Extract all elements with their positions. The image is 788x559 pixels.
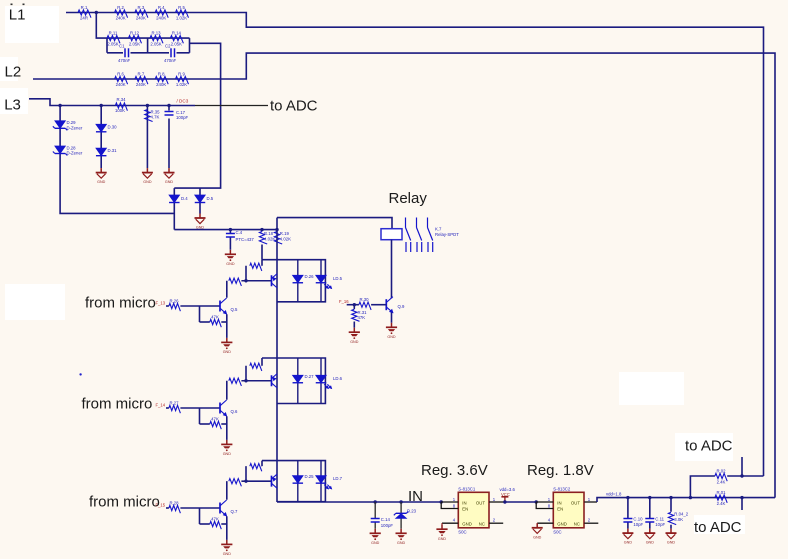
svg-text:GND: GND xyxy=(438,537,447,541)
svg-text:47K: 47K xyxy=(211,517,219,522)
svg-text:from micro: from micro xyxy=(85,295,156,312)
svg-text:EN: EN xyxy=(462,506,468,511)
svg-text:R.7: R.7 xyxy=(138,72,145,77)
svg-text:47K: 47K xyxy=(211,315,219,320)
svg-text:L2: L2 xyxy=(5,64,22,81)
svg-text:100pF: 100pF xyxy=(176,115,189,120)
svg-text:D-Zener: D-Zener xyxy=(67,151,83,156)
svg-text:D.31: D.31 xyxy=(108,148,118,153)
svg-text:from micro: from micro xyxy=(89,494,160,511)
svg-text:D-Zener: D-Zener xyxy=(67,125,83,130)
svg-text:GND: GND xyxy=(97,180,106,184)
svg-text:Reg. 3.6V: Reg. 3.6V xyxy=(421,462,488,479)
svg-text:GND: GND xyxy=(350,340,359,344)
svg-text:OUT: OUT xyxy=(476,500,485,505)
svg-text:to ADC: to ADC xyxy=(270,98,318,115)
svg-text:R.34: R.34 xyxy=(116,97,126,102)
svg-text:R.26: R.26 xyxy=(169,299,179,304)
svg-text:240K: 240K xyxy=(116,82,126,87)
svg-text:F_14: F_14 xyxy=(156,403,166,408)
svg-text:OUT: OUT xyxy=(571,500,580,505)
svg-text:S-813C1: S-813C1 xyxy=(458,487,476,492)
svg-text:R.27: R.27 xyxy=(169,401,179,406)
svg-text:C.4: C.4 xyxy=(236,230,243,235)
svg-text:NC: NC xyxy=(574,521,580,526)
svg-text:F_13: F_13 xyxy=(156,301,166,306)
svg-text:NC: NC xyxy=(479,521,485,526)
svg-text:2.05K: 2.05K xyxy=(150,42,161,47)
svg-text:D.4: D.4 xyxy=(181,196,188,201)
svg-text:2.05K: 2.05K xyxy=(107,42,118,47)
svg-text:D.5: D.5 xyxy=(207,196,214,201)
svg-text:GND: GND xyxy=(533,535,542,539)
svg-text:R.28: R.28 xyxy=(169,501,179,506)
svg-text:IN: IN xyxy=(408,488,423,505)
svg-text:GND: GND xyxy=(371,541,380,545)
svg-text:R.19: R.19 xyxy=(280,231,290,236)
svg-text:R.30: R.30 xyxy=(359,297,369,302)
svg-text:R.1: R.1 xyxy=(81,5,88,10)
svg-text:GND: GND xyxy=(223,452,232,456)
svg-text:2.05K: 2.05K xyxy=(171,42,182,47)
svg-text:4.02K: 4.02K xyxy=(280,236,291,241)
svg-text:C1: C1 xyxy=(119,44,125,49)
svg-text:D.27: D.27 xyxy=(305,374,315,379)
svg-text:S-813C2: S-813C2 xyxy=(553,487,571,492)
svg-text:2.4K: 2.4K xyxy=(717,501,726,506)
svg-text:IN: IN xyxy=(557,500,561,505)
svg-text:470nF: 470nF xyxy=(164,58,177,63)
svg-text:R.3: R.3 xyxy=(138,5,145,10)
svg-text:R.11: R.11 xyxy=(109,31,118,36)
svg-text:R.8: R.8 xyxy=(158,72,165,77)
svg-text:LD.5: LD.5 xyxy=(333,276,343,281)
svg-text:Q.5: Q.5 xyxy=(231,307,239,312)
svg-text:F_16: F_16 xyxy=(339,299,349,304)
svg-text:GND: GND xyxy=(165,180,174,184)
svg-text:R.9: R.9 xyxy=(178,72,185,77)
svg-text:to ADC: to ADC xyxy=(685,438,733,455)
svg-text:100pF: 100pF xyxy=(381,523,394,528)
svg-text:D.25: D.25 xyxy=(305,474,315,479)
svg-text:10pF: 10pF xyxy=(633,522,643,527)
svg-text:LD.6: LD.6 xyxy=(333,376,343,381)
svg-text:100K: 100K xyxy=(115,108,125,113)
svg-text:1.02K: 1.02K xyxy=(176,16,187,21)
svg-text:240K: 240K xyxy=(116,16,126,21)
svg-text:vdd=1.8: vdd=1.8 xyxy=(606,491,622,496)
svg-text:R.4: R.4 xyxy=(158,5,165,10)
svg-text:L1: L1 xyxy=(9,7,26,24)
svg-text:C.14: C.14 xyxy=(381,517,391,522)
svg-text:R.18: R.18 xyxy=(264,231,274,236)
svg-text:240K: 240K xyxy=(156,82,166,87)
svg-text:R.02: R.02 xyxy=(716,469,726,474)
svg-text:2.05K: 2.05K xyxy=(129,42,140,47)
svg-text:R.12: R.12 xyxy=(130,31,140,36)
svg-text:240K: 240K xyxy=(136,16,146,21)
svg-text:L3: L3 xyxy=(4,96,21,113)
svg-text:EN: EN xyxy=(557,506,563,511)
svg-text:R.2: R.2 xyxy=(117,5,124,10)
svg-text:GND: GND xyxy=(223,552,232,556)
svg-text:Reg. 1.8V: Reg. 1.8V xyxy=(527,462,594,479)
svg-text:to ADC: to ADC xyxy=(694,519,742,536)
svg-text:1.02K: 1.02K xyxy=(176,82,187,87)
svg-text:IN: IN xyxy=(462,500,466,505)
svg-text:Q.6: Q.6 xyxy=(231,409,239,414)
svg-text:R.04_2: R.04_2 xyxy=(674,512,688,517)
svg-text:R.13: R.13 xyxy=(151,31,161,36)
svg-text:Q.7: Q.7 xyxy=(231,509,239,514)
svg-text:R.14: R.14 xyxy=(172,31,182,36)
svg-text:Relay-SPDT: Relay-SPDT xyxy=(435,232,459,237)
svg-text:K.7: K.7 xyxy=(435,227,442,232)
svg-text:GND: GND xyxy=(462,521,472,526)
svg-text:GND: GND xyxy=(143,180,152,184)
svg-text:240K: 240K xyxy=(156,16,166,21)
svg-text:R.01: R.01 xyxy=(716,490,726,495)
svg-text:R.6: R.6 xyxy=(117,72,124,77)
svg-text:GND: GND xyxy=(667,541,676,545)
svg-text:GND: GND xyxy=(387,335,396,339)
svg-text:2.4K: 2.4K xyxy=(717,480,726,485)
svg-text:LD.7: LD.7 xyxy=(333,476,343,481)
svg-text:from micro: from micro xyxy=(82,396,153,413)
svg-text:GND: GND xyxy=(397,541,406,545)
svg-text:GND: GND xyxy=(223,350,232,354)
svg-text:Q.9: Q.9 xyxy=(398,304,406,309)
svg-text:D.30: D.30 xyxy=(108,124,118,129)
svg-text:470nF: 470nF xyxy=(118,58,131,63)
svg-text:S0C: S0C xyxy=(458,530,466,535)
svg-text:F_15: F_15 xyxy=(156,503,166,508)
svg-text:C.11: C.11 xyxy=(655,517,664,522)
svg-text:24R: 24R xyxy=(80,16,88,21)
svg-text:GND: GND xyxy=(557,521,567,526)
svg-text:D.26: D.26 xyxy=(305,274,315,279)
svg-text:Relay: Relay xyxy=(389,190,428,207)
svg-text:3.0K: 3.0K xyxy=(674,517,683,522)
svg-text:/ DC3: / DC3 xyxy=(177,99,189,104)
svg-text:GND: GND xyxy=(624,541,633,545)
svg-text:GND: GND xyxy=(226,262,235,266)
svg-text:C2: C2 xyxy=(165,44,171,49)
svg-text:4.7K: 4.7K xyxy=(151,115,160,120)
svg-text:240K: 240K xyxy=(136,82,146,87)
svg-text:VCC: VCC xyxy=(501,492,510,497)
svg-text:R.5: R.5 xyxy=(178,5,185,10)
svg-text:C.10: C.10 xyxy=(633,517,643,522)
svg-text:47K: 47K xyxy=(211,417,219,422)
svg-text:D.23: D.23 xyxy=(407,509,417,514)
svg-text:47K: 47K xyxy=(358,315,366,320)
svg-text:10pF: 10pF xyxy=(655,522,665,527)
svg-text:S0C: S0C xyxy=(553,530,561,535)
svg-text:PTC=437: PTC=437 xyxy=(236,237,255,242)
svg-text:GND: GND xyxy=(646,541,655,545)
